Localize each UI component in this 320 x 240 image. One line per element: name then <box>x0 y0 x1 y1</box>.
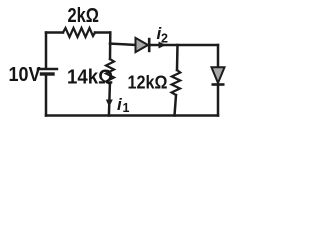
svg-text:2: 2 <box>161 32 168 46</box>
svg-text:2kΩ: 2kΩ <box>68 5 100 27</box>
svg-text:14kΩ: 14kΩ <box>67 67 113 89</box>
svg-text:10V: 10V <box>9 63 41 86</box>
svg-text:1: 1 <box>123 101 130 115</box>
svg-text:12kΩ: 12kΩ <box>128 73 168 93</box>
